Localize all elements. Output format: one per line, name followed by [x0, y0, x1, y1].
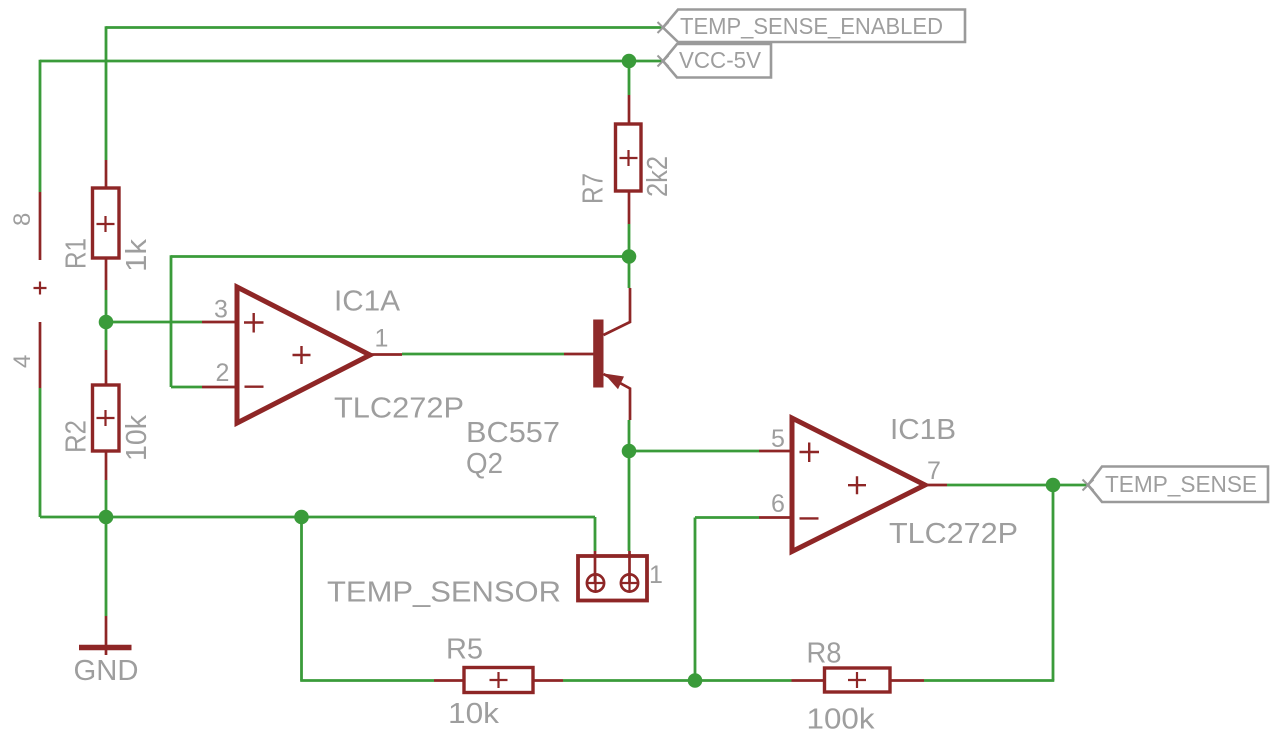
- wire feedback R7 bottom to junction: [628, 224, 631, 257]
- wire junction to Q2 collector: [628, 257, 631, 289]
- resistor R2 pin top: [105, 350, 108, 385]
- IC1 power pin 4 segment: [39, 322, 42, 388]
- svg-text:TEMP_SENSOR: TEMP_SENSOR: [327, 577, 561, 609]
- wire GND net left rail down: [39, 388, 42, 517]
- svg-text:TLC272P: TLC272P: [889, 518, 1018, 550]
- svg-text:Q2: Q2: [466, 448, 503, 480]
- resistor R5 pin right: [533, 679, 563, 682]
- wire net TEMP_SENSE from IC1B out: [947, 484, 1088, 487]
- op-amp IC1A center plus mark: [293, 346, 311, 364]
- junction dot R5-R8 node: [688, 673, 703, 688]
- svg-text:R2: R2: [61, 420, 93, 453]
- svg-text:2: 2: [216, 359, 230, 387]
- wire net TEMP_SENSE vertical down: [1052, 485, 1055, 681]
- svg-text:1: 1: [649, 561, 663, 589]
- IC1 power pin 8 segment: [39, 192, 42, 260]
- wire R5-R8 junction up: [694, 518, 697, 681]
- wire GND net bottom horizontal: [40, 516, 595, 519]
- wire emitter junction to IC1B pin5: [629, 450, 759, 453]
- junction dot VCC at R7: [622, 54, 637, 69]
- resistor R8 pin left: [792, 679, 825, 682]
- wire net TEMP_SENSE_ENABLED vertical to R1: [105, 26, 108, 160]
- svg-text:6: 6: [771, 490, 785, 518]
- resistor R2 polarity plus: [97, 410, 115, 426]
- op-amp IC1B pin6 stub: [759, 516, 790, 519]
- ground symbol GND bar: [79, 645, 132, 650]
- resistor R1 pin bottom: [105, 258, 108, 290]
- wire bottom to R5 left: [300, 679, 434, 682]
- connector TEMP_SENSOR pin1 lead: [594, 551, 597, 583]
- net flag VCC-5V: [658, 44, 772, 78]
- wire node N$1 R1-R2 junction vertical: [105, 290, 108, 350]
- svg-text:5: 5: [771, 425, 785, 453]
- transistor Q2 collector lead: [604, 288, 631, 335]
- wire net VCC-5V horizontal: [40, 60, 663, 63]
- wire Q2 emitter to junction: [628, 420, 631, 451]
- transistor Q2 emitter arrow: [604, 374, 624, 390]
- junction dot GND net at R2: [99, 510, 114, 525]
- wire R8 right to TEMP_SENSE: [924, 679, 1054, 682]
- resistor R5 body: [464, 668, 533, 693]
- wire feedback vertical down: [170, 255, 173, 387]
- resistor R8 body: [825, 668, 891, 692]
- wire feedback horizontal to left: [171, 255, 629, 258]
- resistor R7 pin bottom: [628, 191, 631, 224]
- resistor R5 pin left: [434, 679, 464, 682]
- op-amp IC1B pin5 stub: [759, 450, 790, 453]
- net flag TEMP_SENSE_ENABLED: [658, 10, 966, 43]
- connector TEMP_SENSOR body: [578, 556, 647, 601]
- svg-text:BC557: BC557: [466, 417, 560, 449]
- op-amp IC1A plus input mark: [244, 313, 264, 333]
- resistor R5 polarity plus: [490, 672, 508, 688]
- svg-text:100k: 100k: [807, 704, 876, 736]
- svg-text:TEMP_SENSE_ENABLED: TEMP_SENSE_ENABLED: [680, 13, 943, 39]
- op-amp IC1A pin2 stub: [202, 386, 235, 389]
- svg-text:10k: 10k: [121, 415, 153, 461]
- svg-text:TEMP_SENSE: TEMP_SENSE: [1105, 471, 1257, 497]
- wire net TEMP_SENSE_ENABLED horizontal: [106, 26, 663, 29]
- resistor R1 body: [93, 188, 120, 258]
- svg-text:7: 7: [927, 457, 941, 485]
- op-amp IC1B pin7 output stub: [925, 484, 947, 487]
- connector TEMP_SENSOR pad1 circle: [587, 574, 604, 591]
- junction dot emitter node: [622, 444, 637, 459]
- svg-text:R7: R7: [578, 173, 610, 204]
- svg-text:TLC272P: TLC272P: [334, 393, 464, 425]
- svg-text:8: 8: [9, 213, 36, 226]
- op-amp IC1B center plus mark: [848, 476, 866, 494]
- wire feedback to IC1A pin2: [171, 386, 202, 389]
- resistor R2 body: [93, 385, 120, 451]
- resistor R7 polarity plus: [620, 150, 638, 166]
- wire R2 bottom to GND net: [105, 480, 108, 517]
- IC1 power plus mark: [34, 282, 47, 295]
- svg-text:4: 4: [9, 355, 36, 368]
- resistor R8 polarity plus: [848, 672, 866, 688]
- wire GND net drop to connector pin1: [594, 517, 597, 551]
- wire R5 right to R8 left: [563, 679, 792, 682]
- resistor R7 body: [616, 124, 642, 191]
- op-amp IC1B plus input mark: [800, 443, 820, 463]
- transistor Q2 emitter lead: [604, 374, 631, 420]
- wire emitter junction to connector pin2: [628, 451, 631, 551]
- svg-text:3: 3: [214, 296, 228, 324]
- svg-text:1: 1: [375, 325, 389, 353]
- junction dot GND net branch: [294, 510, 309, 525]
- wire to IC1B pin6: [695, 516, 759, 519]
- connector TEMP_SENSOR pad2 circle: [621, 574, 638, 591]
- resistor R8 pin right: [890, 679, 924, 682]
- transistor Q2 base bar: [593, 320, 603, 388]
- connector TEMP_SENSOR pin2 lead: [628, 551, 631, 583]
- wire IC1A output to Q2 base: [402, 353, 564, 356]
- svg-text:R5: R5: [446, 634, 483, 666]
- net flag TEMP_SENSE: [1083, 467, 1269, 503]
- junction dot feedback below R7: [622, 249, 637, 264]
- wire GND net branch down at x301: [300, 517, 303, 681]
- svg-text:2k2: 2k2: [642, 156, 674, 197]
- svg-text:1k: 1k: [121, 238, 153, 272]
- resistor R2 pin bottom: [105, 451, 108, 480]
- svg-text:IC1A: IC1A: [334, 286, 401, 318]
- op-amp IC1B minus input mark: [800, 517, 819, 519]
- op-amp IC1A triangle: [237, 287, 370, 423]
- op-amp IC1A pin1 output stub: [370, 353, 402, 356]
- resistor R1 pin top: [105, 160, 108, 188]
- ground symbol GND pin: [105, 616, 108, 655]
- resistor R7 pin top: [628, 95, 631, 124]
- svg-text:GND: GND: [74, 655, 139, 687]
- wire net VCC-5V left rail down: [39, 60, 42, 192]
- wire net VCC-5V drop to R7: [628, 61, 631, 95]
- op-amp IC1A minus input mark: [245, 386, 264, 388]
- transistor Q2 base wire stub: [564, 353, 594, 356]
- op-amp IC1A pin3 stub: [202, 321, 235, 324]
- wire GND drop: [105, 517, 108, 616]
- junction dot TEMP_SENSE node: [1046, 478, 1061, 493]
- resistor R1 polarity plus: [97, 216, 115, 232]
- svg-text:10k: 10k: [448, 698, 500, 730]
- svg-text:R8: R8: [807, 638, 842, 670]
- svg-text:VCC-5V: VCC-5V: [679, 47, 762, 73]
- svg-text:IC1B: IC1B: [890, 414, 956, 446]
- op-amp IC1B triangle: [792, 418, 925, 552]
- svg-text:R1: R1: [61, 238, 93, 269]
- junction dot R1-R2 node: [99, 315, 114, 330]
- wire node N$1 to IC1A pin3: [106, 321, 202, 324]
